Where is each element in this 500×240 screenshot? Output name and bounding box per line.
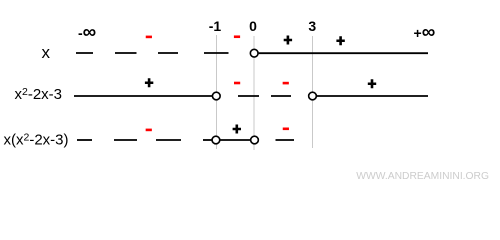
wire: row3 dash 4: [203, 139, 212, 141]
sign: row2 plus 1: [145, 78, 153, 87]
svg-text:+∞: +∞: [414, 22, 436, 43]
svg-text:-∞: -∞: [78, 22, 96, 43]
sign: row1 minus 2 (red): [234, 35, 240, 38]
wire: row3 dash 5: [276, 139, 295, 141]
wire: row3 solid line -1 to 0: [220, 139, 251, 141]
sign: row1 minus 1 (red): [146, 36, 152, 39]
sign: row3 plus 1: [233, 125, 241, 134]
wire: row2 dash 2: [271, 95, 291, 97]
wire: row1 dash 1: [76, 52, 93, 54]
node: open circle row2 at -1: [212, 92, 220, 100]
svg-text:-1: -1: [209, 18, 222, 34]
vertical axis line at x=3: [312, 36, 314, 148]
svg-text:0: 0: [249, 18, 257, 34]
wire: row1 dash 2: [115, 52, 137, 54]
node: open circle row3 at 0: [251, 136, 259, 144]
wire: row2 solid line 3 to +inf: [317, 95, 428, 97]
wire: row1 solid line 0 to +inf: [259, 52, 428, 54]
wire: row1 dash 4: [204, 52, 229, 54]
svg-text:x(x2-2x-3): x(x2-2x-3): [4, 132, 69, 149]
wire: row1 dash 3: [158, 52, 178, 54]
wire: row2 dash 1: [238, 95, 259, 97]
vertical axis line at x=0: [253, 36, 255, 150]
svg-text:WWW.ANDREAMININI.ORG: WWW.ANDREAMININI.ORG: [356, 171, 489, 182]
sign: row2 minus 2 (red): [283, 82, 289, 85]
svg-text:3: 3: [308, 18, 316, 34]
sign: row2 plus 2: [368, 79, 376, 88]
wire: row2 solid line -inf to -1: [74, 95, 213, 97]
svg-text:x: x: [41, 43, 50, 62]
wire: row3 dash 2: [114, 139, 137, 141]
wire: row3 dash 1: [77, 139, 92, 141]
sign: row3 minus 2 (red): [283, 128, 289, 131]
vertical axis line at x=-1: [216, 35, 218, 149]
node: open circle row2 at 3: [309, 92, 317, 100]
node: open circle row3 at -1: [212, 136, 220, 144]
sign: row3 minus 1 (red): [146, 129, 152, 132]
sign: row1 plus 2: [336, 36, 344, 45]
svg-text:x2-2x-3: x2-2x-3: [15, 86, 63, 103]
node: open circle row1 at 0: [250, 49, 258, 57]
sign: row2 minus 1 (red): [234, 82, 240, 85]
sign: row1 plus 1: [284, 36, 292, 45]
wire: row3 dash 3: [156, 139, 181, 141]
